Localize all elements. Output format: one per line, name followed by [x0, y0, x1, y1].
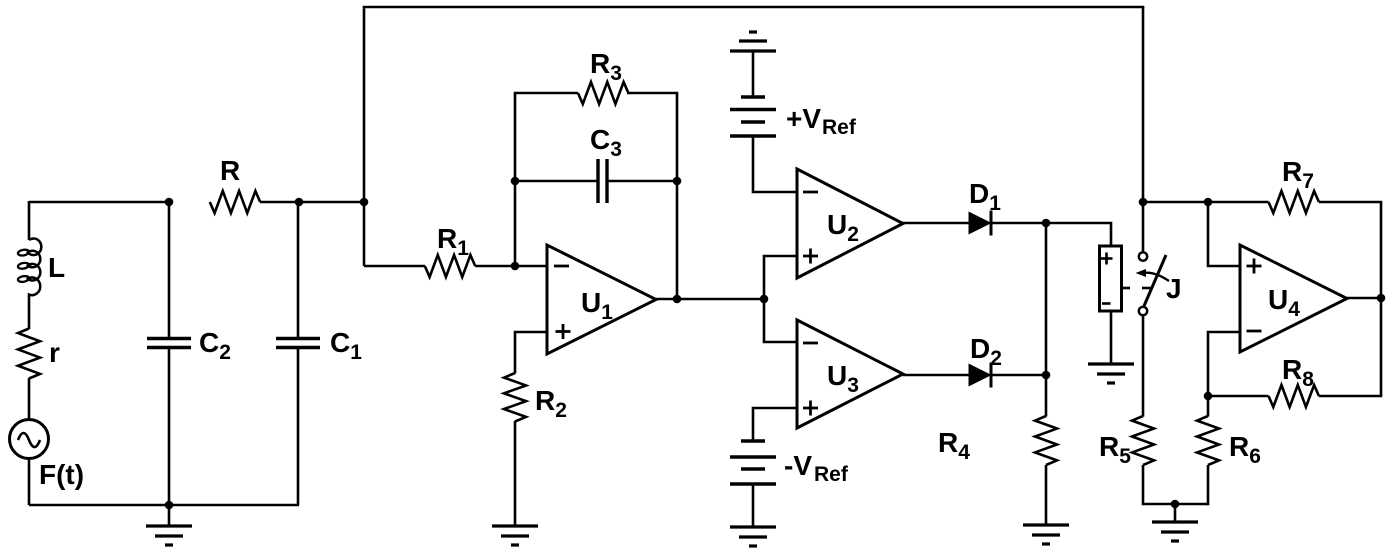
wire feedback left leg [514, 93, 517, 266]
wire right vertical lower [1380, 298, 1383, 396]
node U4 output [1377, 294, 1386, 303]
wire R7 to right corner [1319, 201, 1382, 204]
svg-text:C1: C1 [330, 327, 362, 364]
wire R8 node to zigzag [1208, 395, 1269, 398]
meter box J1 [1100, 246, 1131, 311]
label R5 [1099, 431, 1131, 468]
node D1 output [1042, 219, 1051, 228]
resistor r [18, 329, 40, 379]
wire feedback right leg [676, 93, 679, 299]
wire R4 to ground [1045, 465, 1048, 525]
wire C1 lower [297, 348, 300, 506]
resistor R8 [1269, 385, 1319, 407]
diode D2 [969, 363, 991, 388]
svg-text:D2: D2 [970, 333, 1002, 370]
svg-text:U4: U4 [1268, 284, 1300, 321]
label C1 [330, 327, 362, 364]
U2 inverting pin - [803, 191, 818, 194]
wire U3 output [903, 374, 969, 377]
svg-text:C3: C3 [590, 124, 622, 161]
wire splitter to U2 + [764, 256, 797, 299]
ground below -VRef [730, 527, 776, 546]
wire right vertical upper [1380, 202, 1383, 298]
svg-text:D1: D1 [969, 178, 1001, 215]
wire R8 to right corner [1319, 395, 1382, 398]
resistor R7 [1269, 191, 1319, 213]
label R [220, 155, 240, 186]
U3 non-inverting pin + [803, 401, 818, 416]
op-amp U4 [1240, 245, 1347, 352]
wire switch to R5 [1142, 315, 1145, 417]
wire U4 + input [1208, 202, 1240, 266]
node R8 left [1204, 392, 1213, 401]
svg-text:R5: R5 [1099, 431, 1131, 468]
resistor R3 [578, 82, 628, 104]
svg-text:+V: +V [786, 103, 821, 134]
label L [48, 252, 65, 283]
svg-text:r: r [49, 337, 60, 368]
wire R3 top left [514, 92, 578, 95]
diode D1 [969, 211, 991, 236]
wire R to R1-junction [260, 201, 364, 204]
svg-text:-V: -V [784, 450, 812, 481]
wire junction down to R1 [364, 202, 425, 266]
node bottom-left junction [165, 501, 174, 510]
label J [1166, 273, 1182, 304]
ground below R2 [492, 526, 538, 545]
wire D1-D2 vertical [1045, 223, 1048, 375]
wire U1 output [656, 298, 764, 301]
node C2 top [165, 198, 174, 207]
wire D2 to node [991, 374, 1046, 377]
resistor R4 [1035, 416, 1057, 465]
label D2 [970, 333, 1002, 370]
wire +VRef to U2 inverting input [753, 136, 797, 192]
node rail junction [360, 198, 369, 207]
node C3 right [673, 177, 682, 186]
U4 non-inverting pin + [1247, 259, 1262, 274]
capacitor C1 [276, 339, 320, 348]
node U1 inverting input [511, 262, 520, 271]
wire C2 upper [168, 202, 171, 339]
label R1 [437, 223, 469, 260]
label U2 [827, 209, 859, 246]
label U4 [1268, 284, 1300, 321]
wire bottom right rail [1143, 503, 1208, 506]
wire C3 left [515, 180, 598, 183]
battery +VRef [730, 97, 776, 136]
resistor R5 [1132, 416, 1154, 465]
wire U2 output [903, 222, 969, 225]
label r [49, 337, 60, 368]
svg-text:R3: R3 [590, 48, 622, 85]
capacitor C3 [598, 159, 607, 203]
label U3 [827, 360, 859, 397]
wire D1 to node [991, 222, 1046, 225]
wire left vertical upper [28, 201, 31, 240]
label R6 [1229, 431, 1261, 468]
op-amp U3 [797, 320, 903, 428]
inductor L [17, 238, 41, 297]
wire rail to switch [1142, 202, 1145, 252]
resistor R2 [504, 373, 526, 421]
wire rail down right [1142, 7, 1145, 203]
wire R2 to ground [514, 421, 517, 526]
wire C1 upper [297, 202, 300, 339]
inverted ground above +VRef [730, 32, 776, 51]
label U1 [581, 287, 613, 324]
label R2 [535, 385, 567, 422]
ground bottom right [1152, 504, 1198, 541]
wire rail to R7 node [1143, 201, 1208, 204]
wire U4 - input [1208, 332, 1240, 396]
wire node to R4 [1045, 375, 1048, 417]
wire R6 top [1207, 396, 1210, 417]
label R8 [1282, 354, 1314, 391]
node U1 output [673, 295, 682, 304]
node splitter [760, 295, 769, 304]
node D2 output [1042, 371, 1051, 380]
node R7 left [1204, 198, 1213, 207]
svg-text:U1: U1 [581, 287, 613, 324]
wire top rail [363, 6, 1145, 9]
wire R5 to bottom [1142, 465, 1145, 505]
wire between L and r [28, 296, 31, 329]
label +VRef [786, 103, 857, 139]
svg-text:Ref: Ref [814, 463, 849, 486]
node switch top rail [1139, 198, 1148, 207]
wire -VRef to ground [752, 484, 755, 527]
svg-text:C2: C2 [199, 327, 231, 364]
wire splitter to U3 - [764, 299, 797, 342]
wire meter to ground [1110, 311, 1113, 364]
wire U1 non-inverting input [515, 332, 547, 374]
wire C2 lower [168, 348, 171, 506]
op-amp U1 [547, 245, 656, 354]
svg-text:R: R [220, 155, 240, 186]
wire rail up [363, 8, 366, 202]
wire ground to +VRef battery [752, 51, 755, 97]
U2 non-inverting pin + [803, 249, 818, 264]
label F(t) [39, 459, 84, 490]
label D1 [969, 178, 1001, 215]
svg-text:U2: U2 [827, 209, 859, 246]
label C2 [199, 327, 231, 364]
ground below meter [1088, 364, 1134, 383]
wire source to bottom [28, 458, 31, 505]
battery -VRef [730, 441, 776, 484]
svg-text:R2: R2 [535, 385, 567, 422]
wire R6 to bottom [1207, 465, 1210, 505]
svg-text:R4: R4 [938, 427, 970, 464]
wire R1 to U1 inverting input [475, 265, 547, 268]
svg-text:F(t): F(t) [39, 459, 84, 490]
resistor R6 [1197, 416, 1219, 465]
U1 non-inverting pin + [556, 324, 571, 339]
svg-text:J: J [1166, 273, 1182, 304]
label R4 [938, 427, 970, 464]
resistor R1 [425, 255, 475, 277]
wire between r and source [28, 378, 31, 420]
source F(t) [10, 420, 49, 459]
U4 inverting pin - [1247, 330, 1262, 333]
svg-text:Ref: Ref [822, 116, 857, 139]
label R7 [1282, 156, 1314, 193]
node C1 top [295, 198, 304, 207]
wire U4 output [1347, 297, 1381, 300]
resistor R [210, 191, 260, 213]
label C3 [590, 124, 622, 161]
U1 inverting pin - [554, 265, 569, 268]
svg-text:R6: R6 [1229, 431, 1261, 468]
wire top-left rail [29, 201, 169, 204]
label -VRef [784, 450, 849, 486]
wire R7 node to zigzag [1208, 201, 1269, 204]
node C3 left [511, 177, 520, 186]
wire bottom-left rail [29, 504, 299, 507]
wire D1 node to meter [1046, 223, 1111, 246]
node bottom right ground [1171, 500, 1180, 509]
switch J [1136, 252, 1170, 315]
label R3 [590, 48, 622, 85]
svg-text:L: L [48, 252, 65, 283]
U3 inverting pin - [803, 342, 818, 345]
wire R3 top right [627, 92, 678, 95]
wire U3 non-inverting input [753, 408, 797, 441]
ground bottom-left [146, 505, 192, 545]
wire C3 right [607, 180, 677, 183]
op-amp U2 [797, 169, 903, 278]
svg-text:R7: R7 [1282, 156, 1314, 193]
svg-text:U3: U3 [827, 360, 859, 397]
capacitor C2 [147, 339, 191, 348]
ground below R4 [1023, 525, 1069, 544]
